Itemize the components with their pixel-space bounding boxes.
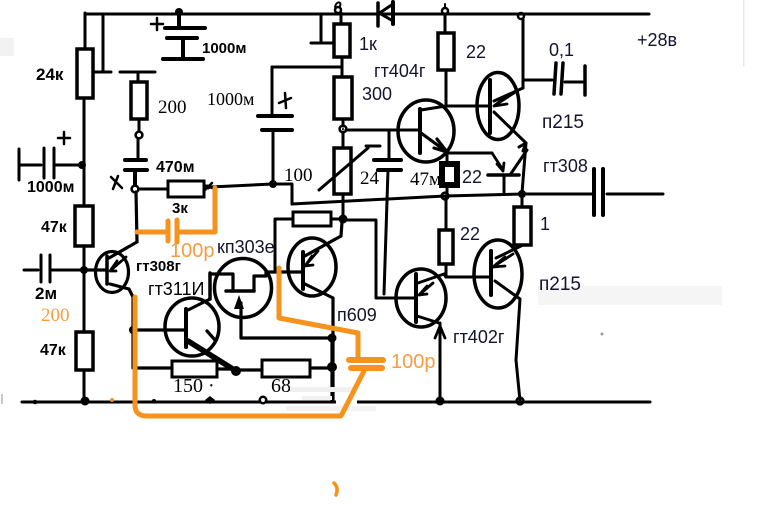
svg-text:1000м: 1000м <box>27 179 74 196</box>
wire gate bar link <box>208 273 212 299</box>
node ring 1k top <box>335 7 341 13</box>
п609 arrow <box>305 251 318 266</box>
svg-text:гт402г: гт402г <box>453 327 505 347</box>
mark orange curl bottom <box>334 483 337 495</box>
п215 upper emitter <box>494 112 526 151</box>
wire 24k bottom to base node <box>83 98 86 206</box>
node emitter rail <box>436 397 445 406</box>
wire collector node to q402 base <box>343 220 416 298</box>
гт402г collector <box>418 274 446 283</box>
svg-text:24к: 24к <box>36 65 64 84</box>
node ring 200 bottom <box>136 132 143 139</box>
capacitor 470м <box>125 160 147 185</box>
svg-text:200: 200 <box>158 97 187 118</box>
svg-text:100р: 100р <box>170 240 215 262</box>
node ground ring <box>260 397 266 403</box>
resistor 3к <box>168 181 204 197</box>
кп303е gate path <box>210 274 233 291</box>
гт404г emitter arrow <box>421 133 447 152</box>
wire left drop to 24k <box>84 13 87 49</box>
svg-text:гт308: гт308 <box>543 156 588 176</box>
wire 300 bottom <box>342 119 345 126</box>
гт311и collector diagonal <box>188 299 210 310</box>
transistor кп303е circle <box>215 259 272 318</box>
svg-text:22: 22 <box>462 167 482 187</box>
wire input node down <box>83 270 86 332</box>
wire emitter to right <box>447 152 492 155</box>
wire orange cap top to p609 base <box>279 268 358 359</box>
гт404г base bar <box>418 109 422 153</box>
svg-text:кп303е: кп303е <box>217 237 275 257</box>
svg-text:2м: 2м <box>35 284 57 303</box>
wire base node to 150 <box>133 330 172 368</box>
svg-text:68: 68 <box>271 375 291 397</box>
п215 lower emitter <box>495 281 520 401</box>
resistor 22 upper <box>442 8 448 14</box>
resistor 22 lower <box>445 196 448 230</box>
trimmer 24 <box>342 132 345 148</box>
svg-text:п215: п215 <box>539 274 581 295</box>
п215 lower base bar <box>489 251 493 295</box>
гт311и base bar <box>184 309 188 347</box>
гт404г collector <box>421 106 446 110</box>
resistor 47к upper <box>75 206 93 246</box>
wire 1k to 300 <box>341 57 344 77</box>
svg-text:гт311И: гт311И <box>148 279 204 299</box>
кп303е source exit wire <box>241 317 332 338</box>
capacitor output <box>594 169 603 215</box>
гт308г emitter <box>110 284 133 330</box>
wire orange 3k link vertical <box>180 188 215 232</box>
wire tap drop x103 <box>93 14 111 72</box>
гт402г emitter <box>417 316 440 401</box>
capacitor 1000м input left <box>19 148 82 180</box>
svg-text:1к: 1к <box>359 34 377 54</box>
svg-text:300: 300 <box>362 84 392 104</box>
node p609 collector <box>339 215 348 224</box>
resistor 68 <box>240 368 262 371</box>
resistor 47к lower <box>76 332 93 370</box>
п215 lower base wire <box>446 276 491 279</box>
plus sign mid cap <box>279 93 291 108</box>
transistor гт308 bars <box>488 173 519 177</box>
resistor 22 black block <box>446 153 449 196</box>
diode top <box>376 3 380 26</box>
svg-text:47м: 47м <box>410 169 441 190</box>
svg-text:п609: п609 <box>337 305 377 325</box>
кп303е channel <box>226 289 254 293</box>
п215 upper collector <box>494 88 523 101</box>
кп303е source arrow <box>239 303 242 317</box>
п609 base wire <box>266 270 303 273</box>
гт308г collector <box>109 192 137 258</box>
resistor 1 <box>521 194 524 207</box>
node ring 470m bottom <box>132 186 139 193</box>
transistor п215 lower circle <box>474 240 522 308</box>
transistor гт308г circle <box>96 252 129 293</box>
wire ring to 3k <box>139 188 168 191</box>
п215 upper base bar <box>488 80 492 133</box>
гт308г base bar <box>105 256 109 284</box>
п215 upper base wire <box>446 105 490 108</box>
resistor feedback horizontal <box>293 212 331 226</box>
plus sign top cap <box>151 18 163 30</box>
svg-text:0,1: 0,1 <box>549 40 574 60</box>
п215 lower arrow <box>493 254 513 267</box>
transistor гт311и circle <box>165 298 219 356</box>
wire tee 200 resistor top <box>120 72 155 82</box>
wire 3k to cap node <box>211 184 273 187</box>
п215 upper arrow <box>494 91 517 106</box>
svg-text:1: 1 <box>540 214 550 234</box>
capacitor 1000м middle <box>258 116 292 130</box>
plus sign left cap <box>58 132 70 144</box>
wire output mid rail <box>273 184 594 204</box>
svg-text:150 ·: 150 · <box>173 375 215 397</box>
node ring base node <box>340 126 347 133</box>
wire 47k to input node <box>83 246 86 270</box>
wire mid cap top to 1k-300 junction <box>272 66 342 69</box>
erased gap in ground rail <box>336 395 357 406</box>
resistor 200 <box>131 82 147 119</box>
п609 emitter <box>303 283 333 401</box>
x mark near 470m <box>111 176 122 189</box>
wire base node to Q404 <box>346 129 420 132</box>
capacitor 2м input <box>24 255 84 282</box>
wire orange big loop left <box>135 297 364 416</box>
svg-text:гт404г: гт404г <box>374 61 426 81</box>
кп303е drain step <box>254 272 266 291</box>
resistor 300 <box>334 77 352 119</box>
node 68 right <box>327 362 337 372</box>
resistor 1к <box>340 13 343 24</box>
node output mid <box>518 190 526 198</box>
wire trimmer to p609 collector node <box>342 194 345 219</box>
svg-text:22: 22 <box>466 42 486 62</box>
transistor гт404г circle <box>398 100 454 162</box>
гт308г arrow <box>110 257 126 271</box>
svg-text:1000м: 1000м <box>202 40 246 57</box>
wire bottom ground rail <box>22 401 650 404</box>
гт402г base bar <box>414 274 418 322</box>
гт402г arrow <box>419 283 433 295</box>
node ring emitter rail <box>517 398 524 405</box>
wire 68 node down to rail <box>330 338 333 400</box>
node 3k right <box>204 183 212 190</box>
svg-text:100р: 100р <box>391 351 436 373</box>
svg-text:200: 200 <box>41 305 70 326</box>
wire 47k lower to ground rail <box>83 370 86 401</box>
п609 collector <box>303 222 342 257</box>
transistor п215 upper circle <box>477 73 519 140</box>
mark tiny dot <box>601 333 604 336</box>
wire 200 bottom <box>138 119 141 131</box>
svg-text:22: 22 <box>460 224 480 244</box>
capacitor 1000м top <box>163 14 205 59</box>
resistor 150 <box>172 361 217 377</box>
faint paste artifacts <box>538 286 722 305</box>
п609 base bar <box>301 252 305 289</box>
node ring p215 top <box>518 13 524 19</box>
п215 lower collector wire <box>496 245 523 258</box>
transistor гт402г circle <box>396 269 446 327</box>
node mid cap bottom <box>269 180 277 188</box>
node top cap junction <box>175 8 183 16</box>
svg-text:п215: п215 <box>542 112 584 133</box>
resistor 24к <box>77 49 93 98</box>
node ground mid diamond <box>205 396 215 404</box>
гт311и emitter thick <box>188 341 236 371</box>
svg-text:47к: 47к <box>41 219 68 236</box>
node left cap junction <box>78 161 86 169</box>
capacitor 47м <box>388 130 391 159</box>
capacitor 0,1 <box>523 79 552 82</box>
node ground left <box>81 397 90 406</box>
гт402г emitter up arrow <box>435 326 445 338</box>
node input junction <box>80 266 88 274</box>
wire p215 collector vertical <box>522 19 525 88</box>
node source junction <box>328 334 337 343</box>
wire ring to 470m <box>137 139 140 158</box>
svg-text:+28в: +28в <box>637 30 677 50</box>
capacitor 100р orange lower <box>349 360 383 368</box>
node ring mid rail <box>442 193 449 200</box>
transistor п609 circle <box>288 238 336 296</box>
гт308г base wire <box>84 268 107 271</box>
svg-text:100: 100 <box>284 165 313 186</box>
capacitor 100р orange upper <box>168 220 177 242</box>
svg-text:3к: 3к <box>172 200 188 217</box>
svg-text:470м: 470м <box>156 159 195 176</box>
гт311и base wire <box>133 328 186 331</box>
node emitter junction thick <box>231 366 241 376</box>
wire 1k side tap <box>311 14 334 43</box>
svg-text:1000м: 1000м <box>207 89 254 109</box>
svg-text:47к: 47к <box>40 342 67 359</box>
wire top rail +28v <box>85 13 649 16</box>
